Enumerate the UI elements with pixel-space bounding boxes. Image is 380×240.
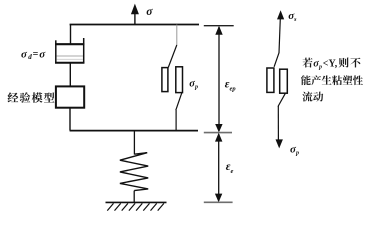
wire: box to bottom bar [69,108,71,131]
note line 3: 流动 [302,92,323,102]
wire: right branch lower [175,110,177,131]
wire: diagonal out of middle slider [176,93,182,111]
dimension tick top [204,25,234,27]
label σd = σ [21,48,46,61]
wire: top horizontal bar [70,24,199,26]
wire: bottom bar to spring [133,131,135,155]
empirical model box [56,86,84,107]
dimension tick bottom [204,201,233,203]
dimension arrow ε_e (double-headed) [215,133,223,202]
arrow σp (right unit, downward) [276,106,283,148]
friction slider (middle), right plate [176,67,183,93]
ground hatching [107,203,164,210]
ground line [106,201,167,203]
wire: dashpot to empirical-model box [69,63,71,86]
arrow σs (right unit, upward) [277,10,284,53]
dimension arrow ε_ep (double-headed) [215,26,223,133]
label 经验模型 [8,92,55,103]
wire: diagonal out of right slider [278,93,285,106]
wire: left branch (top bar to dashpot) [70,25,72,45]
note line 1: 若σp<Y,则不 [303,58,361,71]
applied stress arrow σ (top) [131,4,139,25]
dashpot (viscous damper) [55,38,84,63]
friction slider (right unit), right plate [280,69,288,93]
svg-text:σ: σ [146,6,153,18]
wire: spring to ground [133,191,135,203]
wire: bottom horizontal bar [70,130,198,132]
friction slider (right unit), left plate [267,68,274,92]
friction slider (middle), left plate [162,68,168,92]
dimension tick middle [204,132,232,134]
wire: right branch upper (gray) [176,25,178,46]
svg-text:d: d [28,53,32,61]
svg-text:=: = [33,49,39,60]
wire: diagonal into right slider [274,53,279,67]
svg-text:<Y,: <Y, [323,59,338,70]
spring (elastic element) [120,153,148,191]
note line 2: 能产生粘塑性 [301,75,363,85]
wire: diagonal into middle slider [168,45,177,67]
